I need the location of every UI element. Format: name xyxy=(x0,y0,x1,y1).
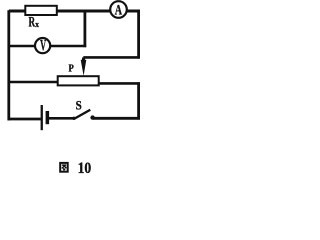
voltmeter V xyxy=(35,38,50,53)
wire bottom mid segment xyxy=(49,117,74,120)
wire top xyxy=(9,10,140,13)
caption glyph 图 xyxy=(60,163,67,172)
switch S right contact xyxy=(90,115,94,119)
svg-text:A: A xyxy=(115,2,123,18)
wire voltmeter vertical connector xyxy=(84,10,87,47)
wire left xyxy=(7,10,10,120)
svg-text:S: S xyxy=(76,98,82,112)
wire slider horizontal xyxy=(83,56,140,59)
wire bottom right segment xyxy=(93,117,140,120)
switch S blade xyxy=(74,110,90,119)
wire right upper xyxy=(137,10,140,58)
rheostat P box xyxy=(58,76,99,85)
wire rheostat left xyxy=(8,81,59,84)
battery short plate xyxy=(46,111,50,124)
wire bottom left segment xyxy=(8,118,41,121)
svg-text:P: P xyxy=(69,63,75,75)
svg-text:x: x xyxy=(35,20,39,29)
wire right lower xyxy=(137,82,140,119)
battery long plate xyxy=(41,105,43,130)
svg-text:V: V xyxy=(40,37,46,54)
resistor Rx xyxy=(25,6,57,15)
rheostat slider arrow xyxy=(82,58,85,62)
svg-text:10: 10 xyxy=(78,160,92,175)
switch S left contact xyxy=(72,117,75,120)
ammeter A xyxy=(110,1,127,18)
wire voltmeter horizontal xyxy=(8,45,87,48)
wire rheostat right xyxy=(99,82,140,85)
